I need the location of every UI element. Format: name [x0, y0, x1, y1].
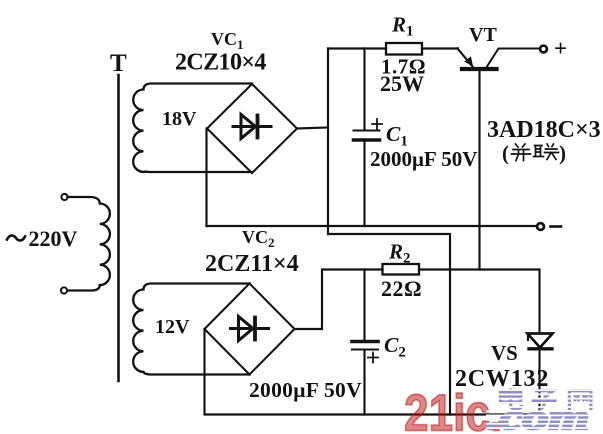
svg-text:VS: VS [491, 341, 518, 365]
svg-text:T: T [110, 50, 127, 77]
wire minus rail [207, 225, 537, 227]
wire C1 branch lower [363, 141, 365, 226]
svg-text:18V: 18V [162, 108, 197, 130]
primary terminal top [61, 194, 67, 200]
label (parallel) hand-drawn [502, 141, 566, 165]
svg-text:(: ( [502, 141, 509, 165]
transformer T core [117, 75, 120, 381]
watermark 21ic [404, 384, 502, 434]
wire vertical bus x328 [327, 49, 329, 235]
wire lower link from bus to bottom rail [328, 234, 450, 415]
secondary winding 12V [133, 284, 249, 375]
svg-text:): ) [559, 141, 566, 165]
wire R2 right to zener top [419, 270, 540, 333]
capacitor C1 [354, 119, 383, 140]
wire VT base lead [478, 70, 480, 270]
wire C2 branch lower [363, 350, 365, 415]
svg-text:VT: VT [469, 24, 497, 46]
output terminal plus [540, 46, 547, 53]
svg-text:R2: R2 [388, 240, 411, 267]
svg-text:2000μF 50V: 2000μF 50V [370, 147, 477, 171]
wire zener bottom lead [538, 350, 540, 415]
transistor VT [458, 49, 540, 70]
secondary winding 18V [133, 84, 252, 173]
wire bottom rail [205, 329, 540, 415]
wire VC2 right corner up to R2 [295, 270, 383, 330]
svg-text:VC2: VC2 [242, 227, 275, 250]
svg-text:220V: 220V [29, 226, 78, 251]
svg-text:C2: C2 [384, 333, 406, 361]
bridge rectifier VC1 diamond [207, 84, 297, 173]
wire C2 branch upper [363, 270, 365, 341]
watermark chinese dianziwang [500, 389, 590, 410]
wire C1 branch upper [363, 49, 365, 130]
bridge VC2 inner diode [231, 317, 269, 341]
output terminal minus [537, 223, 544, 230]
primary terminal bottom [61, 287, 67, 293]
svg-text:2CZ10×4: 2CZ10×4 [175, 50, 266, 76]
bridge rectifier VC2 diamond [205, 284, 295, 375]
label ~220V [7, 236, 25, 241]
resistor R2 [383, 264, 420, 275]
zener diode VS [528, 334, 553, 349]
wire VC1 right corner to vertical bus [297, 128, 328, 129]
watermark white stripes [486, 390, 600, 432]
svg-text:+: + [554, 36, 567, 61]
wire top rail to R1 [328, 47, 386, 49]
svg-text:2000μF 50V: 2000μF 50V [249, 378, 362, 402]
capacitor C2 [352, 342, 378, 363]
svg-text:25W: 25W [380, 71, 424, 96]
svg-text:R1: R1 [391, 13, 414, 40]
svg-text:22Ω: 22Ω [381, 276, 422, 301]
svg-text:3AD18C×3: 3AD18C×3 [487, 117, 601, 143]
bridge VC1 inner diode [233, 115, 271, 139]
svg-text:2CZ11×4: 2CZ11×4 [205, 251, 299, 277]
wire R1 to VT emitter [422, 47, 458, 49]
primary winding ~220V [68, 197, 110, 291]
wire VC1 left corner down to minus rail [205, 129, 207, 227]
resistor R1 [386, 43, 422, 55]
svg-text:12V: 12V [155, 316, 190, 338]
svg-text:C1: C1 [386, 122, 408, 150]
